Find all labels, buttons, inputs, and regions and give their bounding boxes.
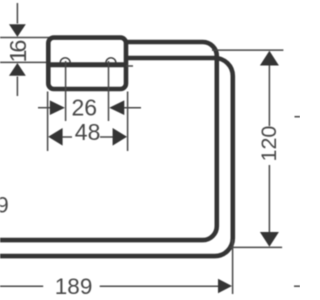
cropped side-view tick upper right	[295, 116, 301, 118]
ring back contour	[0, 42, 217, 240]
dim 26 left arrow	[50, 100, 65, 115]
dim 120 lower line	[268, 165, 270, 232]
ring front contour	[0, 58, 233, 256]
dim 48 left arrow	[48, 128, 62, 146]
wall plate (bracket)	[48, 38, 126, 89]
dim 26 right arrow	[109, 100, 124, 115]
dim 16 bottom arrow	[9, 63, 26, 76]
dim 48 right arrow	[113, 128, 127, 146]
dim 26 right extension line	[108, 61, 110, 121]
svg-text:48: 48	[75, 119, 101, 145]
dim 16 lower line	[16, 77, 18, 97]
dim 120 upper line	[268, 66, 270, 127]
hook left	[60, 58, 70, 63]
dim 16 top extension line	[0, 37, 52, 39]
dim 26 left tail	[38, 107, 50, 109]
dim 48 left extension line	[47, 92, 49, 152]
dim 120 bottom arrow	[260, 232, 279, 247]
bracket connector stub	[126, 65, 133, 67]
dim 26 left extension line	[65, 61, 67, 121]
dim 120 top arrow	[260, 51, 279, 66]
dim 16 top arrow	[9, 24, 26, 37]
dim 16 vertical line	[16, 3, 18, 24]
dim 48 line left	[62, 136, 72, 138]
dim 16 bottom extension line	[0, 61, 52, 63]
svg-text:9: 9	[0, 193, 9, 218]
cropped side-view tick lower right	[294, 285, 300, 287]
dim 48 line right	[100, 136, 114, 138]
dim 120 bottom extension line	[230, 246, 282, 248]
dim 189 line left	[0, 285, 43, 287]
svg-text:26: 26	[72, 94, 98, 120]
dim 189 extension line	[232, 240, 234, 295]
svg-text:189: 189	[55, 274, 93, 299]
dim 189 right arrow	[218, 279, 232, 293]
bracket middle line	[47, 62, 127, 67]
dim 189 line right	[100, 285, 219, 287]
dim 48 right extension line	[127, 92, 129, 152]
hook right	[106, 58, 116, 63]
dim 120 top extension line	[212, 49, 283, 51]
svg-text:16: 16	[5, 40, 31, 63]
svg-text:120: 120	[257, 126, 281, 162]
dim 26 right tail	[124, 107, 141, 109]
